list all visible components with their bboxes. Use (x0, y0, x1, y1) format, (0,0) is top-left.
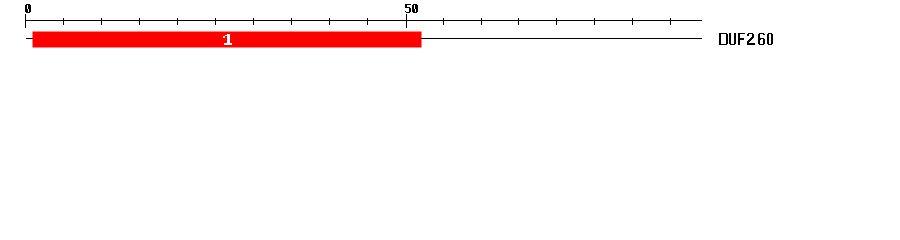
domain number 1 (223, 34, 232, 45)
minor tick 30 (253, 18, 254, 25)
minor tick 40 (329, 18, 330, 25)
major tick 0 (25, 14, 26, 28)
minor tick 85 (670, 18, 671, 25)
minor tick 80 (632, 18, 633, 25)
minor tick 25 (215, 18, 216, 25)
minor tick 5 (63, 18, 64, 25)
minor tick 60 (481, 18, 482, 25)
minor tick 20 (177, 18, 178, 25)
sequence line (26, 38, 702, 39)
ruler label 0 (25, 4, 31, 13)
minor tick 15 (139, 18, 140, 25)
domain box DUF260 (red) (33, 32, 422, 48)
minor tick 45 (367, 18, 368, 25)
domain name DUF260 (719, 33, 773, 45)
major tick 50 (406, 14, 407, 28)
ruler line (25, 20, 702, 21)
minor tick 65 (518, 18, 519, 25)
minor tick 10 (101, 18, 102, 25)
minor tick 75 (594, 18, 595, 25)
ruler label 50 (405, 4, 418, 13)
minor tick 55 (443, 18, 444, 25)
minor tick 70 (556, 18, 557, 25)
minor tick 35 (291, 18, 292, 25)
